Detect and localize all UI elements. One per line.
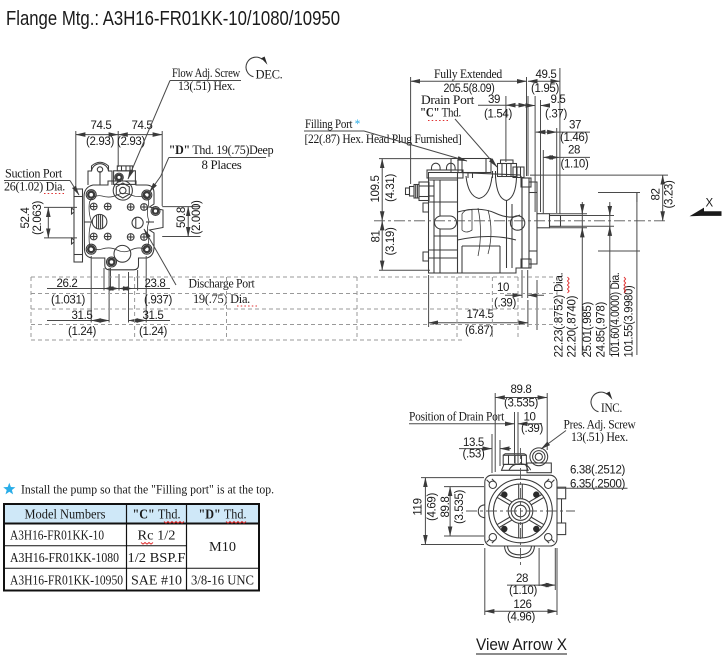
svg-text:10: 10 bbox=[497, 282, 509, 294]
front view corner bolts bbox=[86, 190, 160, 267]
inc rotation arrow bbox=[591, 392, 622, 416]
svg-text:9.5: 9.5 bbox=[551, 94, 566, 106]
svg-text:31.5: 31.5 bbox=[143, 310, 164, 322]
svg-text:82: 82 bbox=[651, 188, 663, 200]
ext lines top of side view bbox=[411, 68, 560, 214]
svg-text:(.37): (.37) bbox=[545, 109, 567, 121]
dec rotation arrow bbox=[246, 57, 283, 82]
svg-text:31.5: 31.5 bbox=[72, 310, 93, 322]
svg-text:SAE #10: SAE #10 bbox=[131, 574, 182, 589]
label pres adj screw bbox=[541, 418, 636, 450]
svg-text:(3.535): (3.535) bbox=[504, 398, 539, 410]
dim 82 right with X arrow bbox=[530, 175, 676, 221]
dim 6.38 key bbox=[558, 465, 628, 491]
rear view top filling plug bbox=[502, 454, 531, 471]
svg-text:Flow Adj. Screw: Flow Adj. Screw bbox=[172, 66, 240, 80]
svg-text:101.60(4.0000) Dia.: 101.60(4.0000) Dia. bbox=[610, 272, 622, 357]
svg-text:(2.93): (2.93) bbox=[86, 136, 114, 148]
label D thread bbox=[150, 143, 274, 192]
svg-text:13.5: 13.5 bbox=[463, 437, 484, 449]
svg-text:(3.535): (3.535) bbox=[454, 489, 466, 524]
svg-text:(1.10): (1.10) bbox=[509, 585, 537, 597]
svg-text:A3H16-FR01KK-1080: A3H16-FR01KK-1080 bbox=[10, 551, 119, 566]
svg-text:(3.19): (3.19) bbox=[385, 227, 397, 255]
svg-text:M10: M10 bbox=[209, 540, 236, 555]
dim 9.5 bbox=[524, 94, 567, 121]
svg-text:81: 81 bbox=[371, 230, 383, 242]
svg-text:(.53): (.53) bbox=[463, 449, 485, 461]
front view small bolt near screw bbox=[115, 173, 124, 182]
svg-text:Suction Port: Suction Port bbox=[5, 167, 63, 181]
svg-text:28: 28 bbox=[516, 573, 528, 585]
svg-text:(6.87): (6.87) bbox=[465, 325, 493, 337]
svg-text:Rc 1/2: Rc 1/2 bbox=[138, 529, 176, 544]
dim 52.4 left of front view bbox=[20, 200, 77, 237]
dim 39 bbox=[478, 94, 528, 121]
dim 13.5 bbox=[459, 434, 511, 473]
svg-text:(1.10): (1.10) bbox=[561, 159, 589, 171]
svg-text:INC.: INC. bbox=[601, 401, 622, 415]
dashed dimension grid bbox=[31, 277, 557, 340]
dim 50.8 right of front view bbox=[162, 200, 203, 237]
svg-text:(1.54): (1.54) bbox=[484, 109, 512, 121]
svg-text:"C" Thd.: "C" Thd. bbox=[133, 508, 181, 523]
svg-text:(2.000): (2.000) bbox=[191, 200, 203, 235]
dim 119 / 89.8 left of rear view bbox=[413, 478, 485, 545]
svg-text:3/8-16 UNC: 3/8-16 UNC bbox=[191, 574, 254, 589]
svg-text:(4.31): (4.31) bbox=[385, 174, 397, 202]
svg-text:Filling Port *: Filling Port * bbox=[305, 117, 360, 131]
svg-text:89.8: 89.8 bbox=[440, 497, 452, 518]
front view discharge port circle bbox=[132, 217, 143, 228]
svg-text:(2.063): (2.063) bbox=[32, 200, 44, 235]
svg-text:39: 39 bbox=[488, 94, 500, 106]
svg-text:6.38(.2512): 6.38(.2512) bbox=[570, 465, 625, 477]
dim 31.5 row bbox=[47, 310, 170, 338]
side view pressure comp screw stub bbox=[406, 182, 430, 201]
side view shaft bbox=[537, 214, 561, 228]
svg-text:89.8: 89.8 bbox=[511, 384, 532, 396]
svg-text:26.2: 26.2 bbox=[57, 278, 78, 290]
svg-text:22.23(.8752) Dia.: 22.23(.8752) Dia. bbox=[554, 272, 566, 357]
svg-text:X: X bbox=[706, 198, 714, 210]
front view pump body bbox=[84, 181, 163, 270]
side view main body bbox=[423, 173, 525, 274]
svg-text:Position of Drain Port: Position of Drain Port bbox=[409, 410, 505, 424]
note install pump bbox=[3, 482, 274, 497]
svg-text:13(.51) Hex.: 13(.51) Hex. bbox=[178, 79, 235, 93]
svg-text:52.4: 52.4 bbox=[20, 207, 32, 229]
side view control housing top bbox=[427, 159, 491, 179]
dim 89.8 top of rear view bbox=[495, 384, 547, 472]
svg-text:8 Places: 8 Places bbox=[202, 158, 242, 172]
svg-text:50.8: 50.8 bbox=[176, 207, 188, 228]
svg-text:(.937): (.937) bbox=[144, 295, 172, 307]
rear view bottom bulge bbox=[505, 546, 535, 558]
svg-text:37: 37 bbox=[569, 120, 581, 132]
rear view left bulge bbox=[478, 505, 485, 518]
rear view corner slots bbox=[487, 479, 555, 543]
svg-text:[22(.87) Hex. Head Plug Furnis: [22(.87) Hex. Head Plug Furnished] bbox=[305, 132, 462, 146]
label discharge port bbox=[144, 229, 259, 306]
svg-text:26(1.02) Dia.: 26(1.02) Dia. bbox=[4, 180, 65, 194]
svg-text:"D" Thd.: "D" Thd. bbox=[199, 508, 247, 523]
view arrow X symbol bbox=[690, 198, 722, 217]
view arrow x caption bbox=[476, 636, 567, 654]
dim 74.5 74.5 top of front view bbox=[76, 120, 162, 206]
shaft dia dims rotated bbox=[550, 193, 641, 358]
dim fully extended 205.5 bbox=[411, 67, 527, 95]
dim 28 bbox=[543, 145, 590, 171]
svg-text:(1.46): (1.46) bbox=[560, 132, 588, 144]
dim 109.5 / 81 left of side view bbox=[370, 159, 452, 271]
svg-text:(1.24): (1.24) bbox=[68, 326, 96, 338]
front view bottom circle bbox=[114, 245, 131, 262]
svg-text:126: 126 bbox=[513, 599, 531, 611]
svg-text:Model Numbers: Model Numbers bbox=[25, 508, 106, 523]
dim 28 bottom of rear view bbox=[507, 548, 555, 597]
svg-text:"C" Thd.: "C" Thd. bbox=[420, 106, 461, 120]
svg-text:(1.031): (1.031) bbox=[51, 295, 86, 307]
svg-text:22.20(.8740): 22.20(.8740) bbox=[567, 295, 579, 357]
svg-text:Install the pump so that the ": Install the pump so that the "Filling po… bbox=[21, 482, 274, 497]
svg-text:19(.75) Dia.: 19(.75) Dia. bbox=[193, 292, 250, 306]
front view suction port circle bbox=[92, 214, 107, 229]
svg-text:DEC.: DEC. bbox=[256, 68, 283, 82]
svg-text:A3H16-FR01KK-10950: A3H16-FR01KK-10950 bbox=[10, 574, 123, 589]
svg-text:1/2 BSP.F: 1/2 BSP.F bbox=[128, 551, 186, 566]
dim 37 bbox=[536, 120, 590, 145]
label flow adj screw bbox=[128, 66, 241, 179]
front view thread holes 8 places bbox=[90, 203, 147, 240]
label drain port bbox=[420, 93, 497, 167]
svg-text:10: 10 bbox=[523, 412, 535, 424]
svg-text:24.85(.978): 24.85(.978) bbox=[596, 302, 608, 358]
svg-text:A3H16-FR01KK-10: A3H16-FR01KK-10 bbox=[10, 529, 104, 544]
extension lines below front view bbox=[91, 256, 146, 323]
label suction port bbox=[4, 167, 79, 196]
label position of drain port + dim 10 bbox=[409, 410, 543, 464]
svg-text:25.01(.985): 25.01(.985) bbox=[582, 302, 594, 358]
rear view centerlines bbox=[520, 448, 522, 568]
svg-text:(.39): (.39) bbox=[521, 423, 543, 435]
svg-text:49.5: 49.5 bbox=[536, 69, 557, 81]
front view left flange plate bbox=[72, 189, 83, 262]
svg-text:101.55(3.9980): 101.55(3.9980) bbox=[624, 285, 636, 357]
dim 10 and 174.5 below side view bbox=[429, 270, 544, 337]
svg-text:Discharge Port: Discharge Port bbox=[189, 277, 256, 291]
side view mounting flange bbox=[521, 178, 537, 268]
rear view bolt holes bbox=[501, 491, 539, 532]
rear view mounting circles bbox=[489, 479, 553, 543]
rear view spokes bbox=[497, 484, 543, 538]
front view flow adj screw block bbox=[114, 166, 136, 185]
svg-text:(.39): (.39) bbox=[494, 298, 516, 310]
dim 126 bottom of rear view bbox=[485, 548, 557, 624]
svg-text:174.5: 174.5 bbox=[466, 309, 493, 321]
model table bbox=[4, 504, 259, 591]
svg-text:23.8: 23.8 bbox=[145, 278, 166, 290]
svg-text:Flange Mtg.: A3H16-FR01KK-10/1: Flange Mtg.: A3H16-FR01KK-10/1080/10950 bbox=[6, 7, 340, 30]
svg-text:119: 119 bbox=[413, 498, 425, 515]
rear view pres adj screw bbox=[527, 448, 551, 473]
side view filling/drain plugs bbox=[468, 160, 524, 178]
svg-text:View Arrow X: View Arrow X bbox=[476, 636, 567, 654]
dim 26.2 / 23.8 row bbox=[47, 278, 172, 307]
dim 49.5 bbox=[528, 69, 560, 95]
svg-text:"D" Thd. 19(.75)Deep: "D" Thd. 19(.75)Deep bbox=[169, 143, 274, 157]
rear view right tabs bbox=[557, 487, 566, 534]
svg-text:13(.51) Hex.: 13(.51) Hex. bbox=[571, 430, 628, 444]
svg-text:(4.69): (4.69) bbox=[427, 493, 439, 521]
svg-text:(2.93): (2.93) bbox=[117, 136, 145, 148]
front view flow adj screw hex bbox=[113, 181, 132, 200]
svg-text:(1.24): (1.24) bbox=[139, 326, 167, 338]
svg-text:74.5: 74.5 bbox=[91, 120, 112, 132]
svg-text:(4.96): (4.96) bbox=[507, 612, 535, 624]
label filling port bbox=[304, 117, 467, 161]
svg-text:28: 28 bbox=[568, 145, 580, 157]
front view top bracket bbox=[88, 162, 112, 185]
svg-text:(3.23): (3.23) bbox=[664, 180, 676, 208]
side view centerline bbox=[374, 220, 668, 222]
rear view body square bbox=[485, 475, 557, 546]
svg-text:Fully Extended: Fully Extended bbox=[434, 67, 503, 81]
svg-text:109.5: 109.5 bbox=[370, 175, 382, 202]
